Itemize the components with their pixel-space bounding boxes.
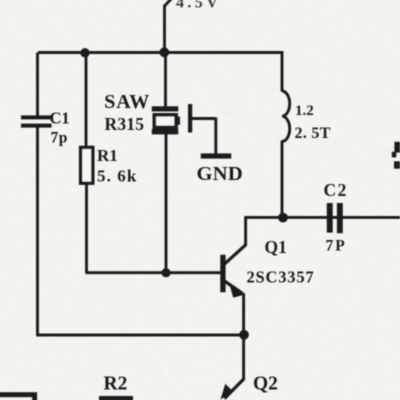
svg-text:C1: C1 [50, 108, 70, 127]
svg-text:7P: 7P [326, 238, 347, 255]
svg-text:4.5V: 4.5V [176, 0, 221, 12]
svg-text:Q1: Q1 [265, 237, 287, 257]
svg-text:SAW: SAW [104, 91, 150, 113]
svg-text:2SC3357: 2SC3357 [247, 267, 315, 286]
svg-text:C2: C2 [324, 180, 348, 200]
svg-text:Q2: Q2 [253, 374, 278, 395]
svg-text:R315: R315 [105, 114, 145, 134]
svg-text:2. 5T: 2. 5T [295, 125, 331, 142]
svg-text:5. 6k: 5. 6k [97, 167, 137, 186]
svg-text:7p: 7p [51, 130, 68, 147]
svg-text:R2: R2 [104, 374, 128, 395]
svg-text:GND: GND [197, 163, 243, 185]
svg-text:R1: R1 [97, 146, 118, 165]
svg-text:1.2: 1.2 [295, 103, 314, 119]
